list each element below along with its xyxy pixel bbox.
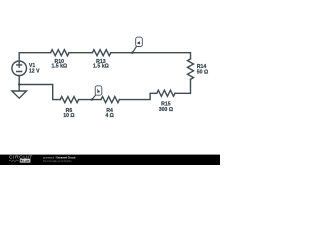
wire bottom-left return: [19, 85, 60, 100]
resistor R13: [92, 50, 110, 56]
wire top rail right: [111, 53, 191, 59]
svg-text:LAB: LAB: [23, 159, 30, 163]
resistor R15: [157, 90, 175, 96]
footer logo LAB box: [20, 159, 31, 163]
node junction V1/ground: [18, 83, 20, 85]
svg-text:http://circuitlab.com/c/7dq43m: http://circuitlab.com/c/7dq43m: [43, 159, 72, 163]
node A flag: [132, 37, 142, 53]
footer logo zigzag: [9, 160, 19, 162]
node junction b: [91, 98, 93, 100]
svg-text:10 Ω: 10 Ω: [63, 113, 74, 119]
resistor R14: [187, 59, 193, 79]
footer bar: [0, 155, 220, 165]
wire V1 bottom: [18, 76, 20, 85]
svg-text:4 Ω: 4 Ω: [105, 113, 114, 119]
node B flag: [92, 86, 102, 100]
resistor R4: [101, 97, 119, 103]
svg-text:1.5 kΩ: 1.5 kΩ: [93, 64, 109, 70]
svg-text:12 V: 12 V: [29, 69, 40, 75]
wire R14 to R15: [175, 79, 191, 93]
ground: [12, 85, 27, 99]
svg-text:300 Ω: 300 Ω: [159, 107, 173, 113]
svg-text:50 Ω: 50 Ω: [197, 70, 208, 76]
wire top-left rail: [19, 53, 50, 61]
resistor R6: [60, 97, 78, 103]
svg-text:1.5 kΩ: 1.5 kΩ: [51, 64, 67, 70]
wire R15 to R4 step: [119, 93, 156, 99]
wire R4 to R6 through node b: [79, 99, 101, 101]
voltage source V1: [12, 61, 27, 76]
node junction a: [131, 52, 133, 54]
labels: [29, 59, 208, 119]
resistor R10: [51, 50, 69, 56]
wire R10 to R13: [69, 52, 92, 54]
